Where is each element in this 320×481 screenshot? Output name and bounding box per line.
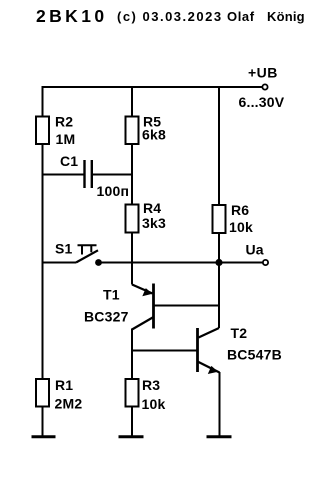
svg-text:R2: R2 [55,114,73,130]
svg-text:König: König [267,9,305,24]
resistor R2 [36,114,75,148]
wire left vertical branch [42,86,44,437]
resistor R1 [36,377,82,412]
svg-text:10k: 10k [229,219,253,235]
svg-text:6k8: 6k8 [142,127,166,143]
wire C1 right lead [93,174,132,176]
ground right (T2 emitter) [207,435,232,438]
svg-text:C1: C1 [60,153,78,169]
svg-text:2BK10: 2BK10 [36,6,107,26]
wire C1 left lead [43,174,84,176]
svg-text:R4: R4 [143,200,161,216]
wire S1 left segment [43,262,77,264]
svg-text:BC547B: BC547B [227,347,282,363]
node junction dot at output [215,259,222,266]
title author König [267,9,305,24]
resistor R6 [213,202,253,235]
svg-text:T2: T2 [231,325,248,341]
resistor R4 [126,200,166,233]
wire right vertical branch (R6-node-T2 collector) [218,86,220,328]
svg-text:T1: T1 [103,287,120,303]
title 2BK10 [36,6,107,26]
switch S1 [55,241,98,263]
terminal Ua output [246,242,269,266]
svg-text:S1: S1 [55,241,73,257]
svg-text:3k3: 3k3 [142,215,166,231]
title author Olaf [227,9,255,24]
svg-text:R6: R6 [231,202,249,218]
svg-text:1M: 1M [56,131,76,147]
wire T2 base horizontal [132,350,198,352]
ground middle (R3) [119,435,144,438]
wire middle vertical branch (R5-R4-T1 emitter) [131,86,133,285]
svg-text:(c) 03.03.2023: (c) 03.03.2023 [117,9,223,24]
svg-text:10k: 10k [142,396,166,412]
terminal +UB [239,65,285,111]
resistor R5 [126,114,166,145]
svg-text:100п: 100п [97,183,130,199]
wire T1 base to node [154,305,220,307]
wire T1 collector vertical to R3 [131,329,133,438]
wire T2 emitter vertical to ground [219,372,221,437]
svg-text:+UB: +UB [248,65,278,81]
svg-text:6...30V: 6...30V [239,94,285,110]
svg-text:BC327: BC327 [84,309,129,325]
svg-text:Ua: Ua [246,242,264,258]
wire output node horizontal [99,262,265,264]
ground left (R1) [32,435,56,438]
svg-text:R1: R1 [55,377,73,393]
svg-text:2M2: 2M2 [55,396,83,412]
resistor R3 [126,377,166,412]
svg-text:R3: R3 [142,377,160,393]
svg-text:Olaf: Olaf [227,9,255,24]
transistor T2 BC547B [198,325,282,374]
title copyright date [117,9,223,24]
node junction dot at S1 contact [95,259,102,266]
transistor T1 BC327 [84,284,154,330]
wire top supply rail [43,86,265,88]
capacitor C1 [60,153,129,199]
